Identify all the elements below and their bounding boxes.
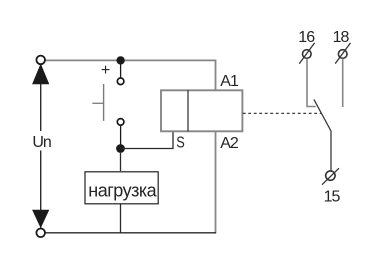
svg-text:нагрузка: нагрузка	[88, 181, 157, 201]
dashed mechanical link from relay to contact	[243, 112, 321, 114]
junction dot mid	[116, 144, 125, 153]
switch S1 bottom contact circle	[117, 119, 124, 126]
svg-text:18: 18	[333, 29, 350, 46]
wire: terminal 16 down with NC foot	[307, 59, 316, 107]
svg-text:S: S	[176, 134, 185, 152]
relay contact blade	[314, 99, 331, 170]
wire: load box to bottom wire	[120, 204, 122, 233]
wire: left vertical (upper segment)	[40, 64, 42, 131]
terminal circle bottom-left	[36, 229, 45, 238]
relay box U1	[161, 90, 242, 131]
switch S1 lever	[103, 84, 105, 121]
switch S1 top contact circle	[117, 78, 124, 85]
wire: bottom horizontal return	[45, 232, 216, 234]
terminal 15 slash	[322, 168, 339, 185]
svg-text:Un: Un	[32, 134, 51, 151]
svg-text:16: 16	[298, 29, 315, 46]
svg-text:A2: A2	[220, 135, 239, 152]
terminal 18 circle	[338, 50, 347, 59]
switch S1 actuator tick	[92, 102, 103, 104]
svg-text:15: 15	[324, 189, 341, 206]
wire: junction to switch top contact	[120, 60, 122, 78]
junction dot top	[116, 56, 124, 64]
arrow up (Un polarity)	[32, 64, 49, 85]
wire: left vertical (lower segment)	[40, 151, 42, 230]
terminal 16 slash	[299, 43, 314, 64]
wire: A2 vertical	[215, 131, 217, 233]
terminal 15 circle	[326, 171, 335, 180]
wire: top horizontal supply + A1 drop	[45, 60, 216, 90]
wire: mid junction to load box	[120, 153, 122, 171]
wire: S branch to relay box	[121, 131, 174, 148]
svg-text:+: +	[101, 62, 110, 79]
wire: terminal 18 down	[342, 59, 344, 108]
terminal 18 slash	[335, 43, 350, 64]
relay box divider	[187, 90, 189, 131]
terminal 16 circle	[303, 50, 312, 59]
svg-text:A1: A1	[220, 73, 239, 90]
terminal circle top-left	[36, 56, 45, 65]
load box	[85, 172, 158, 204]
arrow down (Un polarity)	[32, 210, 49, 228]
wire: switch bottom contact to mid junction	[120, 125, 122, 148]
